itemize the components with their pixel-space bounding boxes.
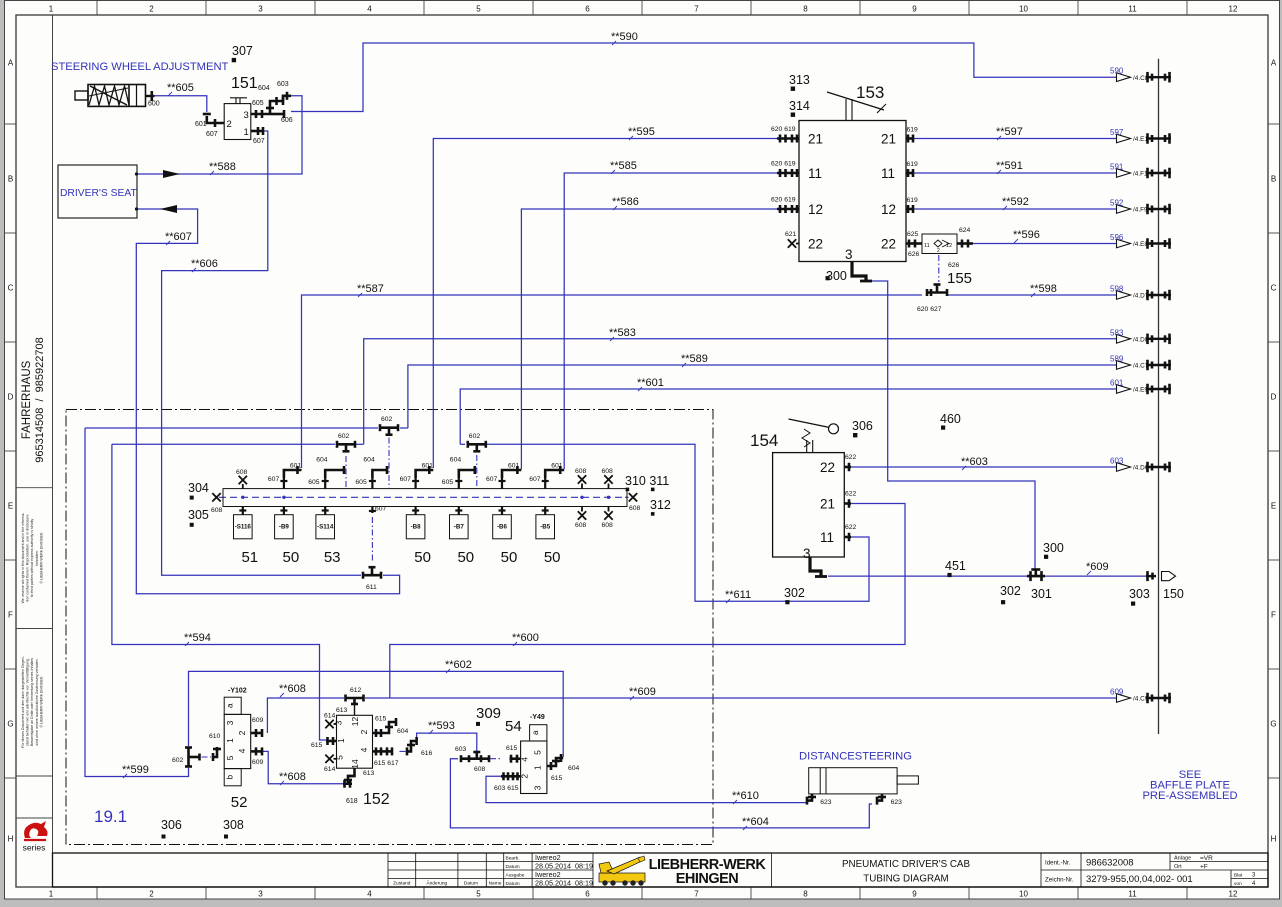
svg-text:306: 306 xyxy=(161,818,182,832)
svg-text:11: 11 xyxy=(820,530,834,545)
svg-text:151: 151 xyxy=(231,75,258,92)
svg-text:608: 608 xyxy=(474,766,486,773)
svg-text:+F: +F xyxy=(1200,863,1208,870)
svg-text:-B5: -B5 xyxy=(540,524,551,531)
svg-text:**589: **589 xyxy=(681,353,708,365)
svg-text:**593: **593 xyxy=(428,720,455,732)
svg-text:12: 12 xyxy=(881,202,896,217)
svg-text:451: 451 xyxy=(945,559,966,573)
svg-text:601: 601 xyxy=(508,463,520,470)
svg-text:a: a xyxy=(531,730,540,735)
svg-text:7: 7 xyxy=(694,890,699,899)
svg-text:589: 589 xyxy=(1110,355,1124,364)
svg-text:607: 607 xyxy=(486,476,498,483)
svg-text:626: 626 xyxy=(948,262,960,269)
svg-text:5: 5 xyxy=(476,890,481,899)
svg-text:12: 12 xyxy=(1229,890,1238,899)
svg-text:604: 604 xyxy=(397,728,409,735)
svg-text:309: 309 xyxy=(476,705,501,722)
svg-text:602: 602 xyxy=(381,416,393,423)
svg-text:1: 1 xyxy=(49,890,54,899)
svg-text:b: b xyxy=(226,774,235,779)
svg-text:626: 626 xyxy=(908,251,920,258)
svg-text:608: 608 xyxy=(236,469,248,476)
svg-text:**586: **586 xyxy=(612,196,639,208)
svg-text:622: 622 xyxy=(845,491,857,498)
svg-text:to third parties without expre: to third parties without express authori… xyxy=(30,519,34,597)
svg-text:Bearb.: Bearb. xyxy=(506,855,520,861)
svg-text:300: 300 xyxy=(826,269,847,283)
svg-text:**603: **603 xyxy=(961,456,988,468)
svg-text:B: B xyxy=(1271,175,1276,184)
svg-text:2: 2 xyxy=(520,774,530,779)
svg-text:/4.F1: /4.F1 xyxy=(1133,171,1148,178)
svg-text:603 615: 603 615 xyxy=(494,785,519,792)
svg-text:307: 307 xyxy=(232,44,253,58)
svg-text:© LIEBHERR-WERK EHINGEN: © LIEBHERR-WERK EHINGEN xyxy=(39,532,43,583)
svg-text:Änderung: Änderung xyxy=(426,879,447,886)
svg-text:**591: **591 xyxy=(996,160,1023,172)
svg-text:613: 613 xyxy=(336,707,348,714)
svg-text:615: 615 xyxy=(311,742,323,749)
svg-text:2: 2 xyxy=(227,119,232,130)
svg-text:21: 21 xyxy=(820,497,835,512)
svg-text:28.05.2014 08:19: 28.05.2014 08:19 xyxy=(535,878,593,887)
svg-text:Bekanntgabe an Dritte oder Ver: Bekanntgabe an Dritte oder Verwertung se… xyxy=(30,658,34,746)
svg-text:11: 11 xyxy=(881,166,895,181)
svg-text:3279-955,00,04,002- 001: 3279-955,00,04,002- 001 xyxy=(1086,874,1193,885)
svg-text:607: 607 xyxy=(375,506,387,513)
svg-text:stand behalten wir uns alle Re: stand behalten wir uns alle Rechte vor. … xyxy=(26,658,30,746)
svg-text:301: 301 xyxy=(1031,587,1052,601)
svg-text:2: 2 xyxy=(149,890,154,899)
svg-text:618: 618 xyxy=(346,798,358,805)
svg-text:620 619: 620 619 xyxy=(771,126,796,133)
svg-text:591: 591 xyxy=(1110,163,1124,172)
svg-text:-B7: -B7 xyxy=(454,524,465,531)
svg-text:4: 4 xyxy=(367,5,372,14)
svg-text:6: 6 xyxy=(585,5,590,14)
svg-text:series: series xyxy=(23,843,46,853)
svg-text:11: 11 xyxy=(924,243,930,249)
svg-text:F: F xyxy=(8,611,13,620)
svg-text:DRIVER'S SEAT: DRIVER'S SEAT xyxy=(60,188,137,199)
svg-text:53: 53 xyxy=(324,549,341,566)
svg-text:1: 1 xyxy=(244,127,249,138)
svg-text:155: 155 xyxy=(947,270,972,287)
svg-text:-S116: -S116 xyxy=(235,524,252,531)
svg-text:D: D xyxy=(8,393,14,402)
svg-text:9: 9 xyxy=(912,5,917,14)
svg-text:3: 3 xyxy=(244,110,249,121)
svg-text:608: 608 xyxy=(575,522,587,529)
svg-text:50: 50 xyxy=(457,549,474,566)
svg-text:Anlage: Anlage xyxy=(1174,856,1191,862)
svg-text:**608: **608 xyxy=(279,771,306,783)
svg-text:**610: **610 xyxy=(732,790,759,802)
svg-text:622: 622 xyxy=(845,454,857,461)
svg-text:604: 604 xyxy=(450,457,462,464)
svg-text:21: 21 xyxy=(881,132,896,147)
svg-text:10: 10 xyxy=(1019,890,1028,899)
svg-text:619: 619 xyxy=(907,197,919,204)
svg-text:11: 11 xyxy=(1128,890,1137,899)
svg-text:615: 615 xyxy=(375,716,387,723)
svg-text:313: 313 xyxy=(789,73,810,87)
svg-text:597: 597 xyxy=(1110,128,1124,137)
svg-text:616: 616 xyxy=(421,750,433,757)
svg-text:601: 601 xyxy=(551,463,563,470)
svg-text:D: D xyxy=(1271,393,1277,402)
svg-text:22: 22 xyxy=(820,460,835,475)
svg-text:*609: *609 xyxy=(1086,561,1109,573)
svg-text:-S114: -S114 xyxy=(317,524,334,531)
svg-text:302: 302 xyxy=(1000,584,1021,598)
svg-text:609: 609 xyxy=(1110,688,1124,697)
svg-text:© LIEBHERR-WERK EHINGEN: © LIEBHERR-WERK EHINGEN xyxy=(39,676,43,727)
svg-text:607: 607 xyxy=(253,138,265,145)
svg-text:Datum: Datum xyxy=(506,864,520,870)
svg-text:312: 312 xyxy=(650,498,671,512)
svg-text:**588: **588 xyxy=(209,161,236,173)
svg-text:1: 1 xyxy=(533,765,543,770)
svg-text:/4.F9: /4.F9 xyxy=(1133,207,1148,214)
svg-text:**590: **590 xyxy=(611,31,638,43)
svg-text:460: 460 xyxy=(940,412,961,426)
svg-text:22: 22 xyxy=(881,237,896,252)
svg-text:614: 614 xyxy=(324,766,336,773)
svg-text:592: 592 xyxy=(1110,199,1124,208)
svg-text:A: A xyxy=(8,59,14,68)
svg-text:604: 604 xyxy=(258,85,270,92)
svg-text:50: 50 xyxy=(414,549,431,566)
svg-text:965314508 / 985922708: 965314508 / 985922708 xyxy=(34,337,46,462)
svg-text:601: 601 xyxy=(1110,379,1124,388)
svg-text:605: 605 xyxy=(252,100,264,107)
svg-text:598: 598 xyxy=(1110,285,1124,294)
svg-text:583: 583 xyxy=(1110,328,1124,337)
svg-text:EHINGEN: EHINGEN xyxy=(676,871,739,887)
svg-text:19.1: 19.1 xyxy=(94,807,127,826)
svg-text:610: 610 xyxy=(209,733,221,740)
svg-text:3: 3 xyxy=(258,5,263,14)
svg-text:E: E xyxy=(8,502,13,511)
svg-text:601: 601 xyxy=(290,463,302,470)
svg-text:590: 590 xyxy=(1110,67,1124,76)
svg-text:302: 302 xyxy=(784,586,805,600)
svg-text:605: 605 xyxy=(442,479,454,486)
svg-text:22: 22 xyxy=(808,237,823,252)
svg-text:52: 52 xyxy=(231,794,248,811)
svg-text:A: A xyxy=(1271,59,1277,68)
svg-text:8: 8 xyxy=(803,5,808,14)
svg-text:613: 613 xyxy=(363,770,375,777)
svg-text:Ident.-Nr.: Ident.-Nr. xyxy=(1045,860,1071,867)
svg-text:PRE-ASSEMBLED: PRE-ASSEMBLED xyxy=(1142,790,1237,802)
svg-text:607: 607 xyxy=(268,476,280,483)
svg-text:1: 1 xyxy=(225,738,235,743)
svg-text:Datum: Datum xyxy=(464,880,478,886)
svg-text:608: 608 xyxy=(602,522,614,529)
svg-text:**608: **608 xyxy=(279,683,306,695)
svg-text:621: 621 xyxy=(785,231,797,238)
svg-text:607: 607 xyxy=(529,476,541,483)
svg-text:154: 154 xyxy=(750,431,778,450)
svg-text:STEERING WHEEL ADJUSTMENT: STEERING WHEEL ADJUSTMENT xyxy=(51,61,229,73)
svg-text:**602: **602 xyxy=(445,659,472,671)
svg-text:G: G xyxy=(1270,720,1276,729)
svg-text:620 619: 620 619 xyxy=(771,161,796,168)
svg-text:9: 9 xyxy=(912,890,917,899)
svg-text:C: C xyxy=(8,284,14,293)
svg-text:12: 12 xyxy=(350,717,360,727)
svg-text:608: 608 xyxy=(211,507,223,514)
svg-text:Zustand: Zustand xyxy=(393,880,411,886)
svg-text:150: 150 xyxy=(1163,587,1184,601)
svg-text:**597: **597 xyxy=(996,126,1023,138)
svg-text:**604: **604 xyxy=(742,816,769,828)
svg-text:12: 12 xyxy=(808,202,823,217)
svg-text:1: 1 xyxy=(49,5,54,14)
svg-text:Blat: Blat xyxy=(1234,872,1243,878)
svg-text:**585: **585 xyxy=(610,160,637,172)
svg-text:2: 2 xyxy=(937,248,940,254)
svg-text:tion contained therein. Reprod: tion contained therein. Reproduction, us… xyxy=(26,515,30,602)
svg-text:608: 608 xyxy=(575,468,587,475)
svg-text:PNEUMATIC DRIVER'S CAB: PNEUMATIC DRIVER'S CAB xyxy=(842,859,970,870)
svg-text:6: 6 xyxy=(585,890,590,899)
svg-text:**601: **601 xyxy=(637,377,664,389)
svg-text:11: 11 xyxy=(1128,5,1137,14)
svg-text:300: 300 xyxy=(1043,541,1064,555)
svg-text:**605: **605 xyxy=(167,82,194,94)
svg-text:**609: **609 xyxy=(629,686,656,698)
svg-text:3: 3 xyxy=(533,785,543,790)
svg-text:623: 623 xyxy=(820,799,832,806)
svg-text:3: 3 xyxy=(225,720,235,725)
svg-text:623: 623 xyxy=(891,799,903,806)
svg-text:-Y102: -Y102 xyxy=(228,688,247,695)
svg-text:50: 50 xyxy=(544,549,561,566)
svg-text:-B9: -B9 xyxy=(279,524,290,531)
svg-text:**606: **606 xyxy=(191,258,218,270)
svg-text:Ort: Ort xyxy=(1174,864,1182,870)
svg-text:Zeichn-Nr.: Zeichn-Nr. xyxy=(1045,877,1074,884)
svg-text:596: 596 xyxy=(1110,233,1124,242)
svg-text:614: 614 xyxy=(324,713,336,720)
svg-text:625: 625 xyxy=(907,231,919,238)
svg-text:4: 4 xyxy=(367,890,372,899)
svg-text:von: von xyxy=(1234,882,1242,887)
svg-text:604: 604 xyxy=(363,457,375,464)
svg-text:615 617: 615 617 xyxy=(374,760,399,767)
svg-text:H: H xyxy=(1271,835,1277,844)
svg-text:624: 624 xyxy=(959,227,971,234)
svg-text:620 619: 620 619 xyxy=(771,197,796,204)
svg-text:8: 8 xyxy=(803,890,808,899)
svg-text:sind ohne unsere ausdrückliche: sind ohne unsere ausdrückliche Zustimmun… xyxy=(35,658,39,745)
svg-text:10: 10 xyxy=(1019,5,1028,14)
svg-text:605: 605 xyxy=(355,479,367,486)
svg-text:611: 611 xyxy=(366,584,377,591)
svg-text:603: 603 xyxy=(1110,457,1124,466)
svg-text:Name: Name xyxy=(489,880,502,886)
svg-text:F: F xyxy=(1271,611,1276,620)
svg-text:**600: **600 xyxy=(512,632,539,644)
svg-text:2: 2 xyxy=(237,730,247,735)
svg-text:622: 622 xyxy=(845,524,857,531)
svg-text:608: 608 xyxy=(629,505,641,512)
svg-text:601: 601 xyxy=(422,463,434,470)
svg-text:5: 5 xyxy=(225,755,235,760)
svg-text:619: 619 xyxy=(907,127,919,134)
svg-text:2: 2 xyxy=(359,729,369,734)
svg-text:304: 304 xyxy=(188,481,209,495)
svg-text:**611: **611 xyxy=(725,589,751,601)
svg-text:600: 600 xyxy=(148,101,160,108)
svg-text:310 311: 310 311 xyxy=(625,474,669,488)
svg-text:603: 603 xyxy=(277,81,289,88)
svg-text:FAHRERHAUS: FAHRERHAUS xyxy=(21,360,33,439)
svg-text:-B6: -B6 xyxy=(497,524,508,531)
svg-text:1: 1 xyxy=(336,738,346,743)
svg-text:602: 602 xyxy=(338,433,350,440)
svg-text:2: 2 xyxy=(149,5,154,14)
svg-text:306: 306 xyxy=(852,419,873,433)
svg-text:21: 21 xyxy=(808,132,823,147)
svg-text:607: 607 xyxy=(206,131,218,138)
svg-text:153: 153 xyxy=(856,83,884,102)
svg-text:3: 3 xyxy=(258,890,263,899)
svg-text:4: 4 xyxy=(359,747,369,752)
svg-text:**598: **598 xyxy=(1030,283,1057,295)
svg-text:305: 305 xyxy=(188,508,209,522)
svg-text:12: 12 xyxy=(1229,5,1238,14)
svg-text:54: 54 xyxy=(505,718,522,735)
svg-text:**583: **583 xyxy=(609,327,636,339)
svg-text:**587: **587 xyxy=(357,283,384,295)
svg-text:5: 5 xyxy=(476,5,481,14)
svg-text:615: 615 xyxy=(506,745,518,752)
svg-text:615: 615 xyxy=(551,775,563,782)
svg-text:3: 3 xyxy=(845,247,853,262)
svg-text:986632008: 986632008 xyxy=(1086,858,1134,869)
svg-text:606: 606 xyxy=(281,117,293,124)
svg-text:**594: **594 xyxy=(184,632,211,644)
svg-text:=VR: =VR xyxy=(1200,855,1213,862)
svg-text:50: 50 xyxy=(501,549,518,566)
svg-text:**596: **596 xyxy=(1013,229,1040,241)
svg-text:604: 604 xyxy=(316,457,328,464)
svg-text:4: 4 xyxy=(237,748,247,753)
svg-text:11: 11 xyxy=(808,166,822,181)
svg-text:602: 602 xyxy=(172,757,184,764)
svg-text:TUBING DIAGRAM: TUBING DIAGRAM xyxy=(863,874,948,885)
svg-text:605: 605 xyxy=(308,479,320,486)
svg-text:603: 603 xyxy=(455,746,467,753)
svg-text:14: 14 xyxy=(350,759,360,769)
svg-text:5: 5 xyxy=(533,750,543,755)
svg-text:-B8: -B8 xyxy=(411,524,422,531)
svg-text:C: C xyxy=(1271,284,1277,293)
svg-text:308: 308 xyxy=(223,818,244,832)
svg-text:602: 602 xyxy=(469,433,481,440)
svg-text:Datum: Datum xyxy=(506,881,520,887)
svg-text:We reserve all rights in this: We reserve all rights in this document a… xyxy=(21,512,25,604)
svg-text:B: B xyxy=(8,175,13,184)
svg-text:DISTANCESTEERING: DISTANCESTEERING xyxy=(799,751,912,763)
svg-text:7: 7 xyxy=(694,5,699,14)
svg-text:607: 607 xyxy=(400,476,412,483)
svg-text:620 627: 620 627 xyxy=(917,306,942,313)
svg-text:Ausgabe: Ausgabe xyxy=(506,872,525,878)
svg-text:Für dieses Dokument und den da: Für dieses Dokument und den darin darges… xyxy=(21,655,25,747)
svg-text:314: 314 xyxy=(789,99,810,113)
svg-text:-Y49: -Y49 xyxy=(530,714,545,721)
svg-text:612: 612 xyxy=(350,687,362,694)
svg-text:51: 51 xyxy=(241,549,258,566)
svg-text:G: G xyxy=(7,720,13,729)
svg-text:4: 4 xyxy=(520,757,530,762)
svg-text:50: 50 xyxy=(283,549,300,566)
svg-text:608: 608 xyxy=(602,468,614,475)
svg-text:152: 152 xyxy=(363,791,390,808)
svg-text:**599: **599 xyxy=(122,764,149,776)
svg-text:E: E xyxy=(1271,502,1276,511)
svg-text:a: a xyxy=(226,703,235,708)
svg-text:forbidden.: forbidden. xyxy=(35,550,39,566)
svg-text:609: 609 xyxy=(252,717,264,724)
svg-text:601: 601 xyxy=(195,121,207,128)
svg-text:609: 609 xyxy=(252,759,264,766)
svg-text:303: 303 xyxy=(1129,587,1150,601)
svg-text:619: 619 xyxy=(907,161,919,168)
svg-text:H: H xyxy=(8,835,14,844)
svg-text:**592: **592 xyxy=(1002,196,1029,208)
svg-text:**595: **595 xyxy=(628,126,655,138)
svg-text:**607: **607 xyxy=(165,231,192,243)
svg-text:604: 604 xyxy=(568,765,580,772)
